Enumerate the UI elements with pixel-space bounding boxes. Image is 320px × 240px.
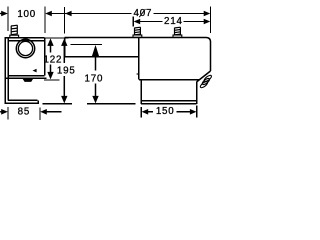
svg-text:100: 100	[17, 9, 36, 20]
dimension 85: right ext line	[39, 108, 41, 121]
dimension 170: top extension line	[71, 44, 103, 46]
right view: housing left edge	[138, 38, 140, 80]
left view: threaded stud	[11, 25, 18, 35]
left view: body bottom seam	[8, 75, 45, 77]
dimension 195: line with arrows	[61, 38, 67, 103]
right view: cable gland ribs	[199, 74, 212, 88]
right view: stud 1	[134, 27, 140, 35]
left view: mounting plate inner face	[7, 38, 9, 101]
baseline extension segment 2	[87, 103, 135, 105]
dimension 100: right ext line	[44, 7, 46, 34]
dimension 150: right segment and arrow	[177, 111, 192, 113]
svg-text:195: 195	[57, 65, 76, 76]
svg-text:122: 122	[44, 54, 63, 65]
left view: body top edge	[5, 37, 45, 39]
dimension 214: right segment and arrow	[184, 21, 206, 23]
dimension 150: left arrow and segment	[142, 109, 149, 115]
left view: drain tab under bottom lip	[23, 79, 34, 82]
dimension 85: left arrow	[0, 111, 2, 113]
left view: gland outer circle	[16, 39, 34, 57]
svg-text:407: 407	[134, 8, 153, 19]
dimension 150: left ext line	[140, 107, 142, 118]
svg-text:170: 170	[85, 74, 104, 85]
right view: base bottom edge	[141, 103, 197, 105]
right view: housing bottom edge	[139, 79, 200, 81]
dimension 407: right shared ext line	[210, 7, 212, 34]
dimension 150: right ext line	[196, 106, 198, 118]
dimension 100: left arrow	[0, 13, 2, 15]
dimension 407: left ext line	[64, 7, 66, 34]
right view: duct bottom edge	[65, 56, 139, 58]
dimension 122/195: top extension line	[46, 37, 69, 39]
right view: base left edge	[140, 80, 142, 104]
right view: base right edge	[196, 82, 198, 104]
right view: base bottom seam	[141, 100, 197, 102]
dimension 100: left ext line	[7, 7, 9, 32]
dimension 170: line with arrows	[92, 45, 99, 104]
right view: duct left edge	[64, 38, 66, 57]
left view: stud base flange	[10, 35, 19, 37]
left view: gland inner circle	[18, 41, 32, 55]
dimension 214: left arrow and segment	[134, 19, 141, 25]
left view: mounting plate outer face	[4, 38, 6, 104]
right view: housing left edge weld tick	[137, 73, 139, 75]
left view: small arrow marker inside body	[33, 69, 37, 73]
dimension 407: right segment and arrow	[154, 13, 206, 15]
dimension 85: left ext line	[7, 107, 9, 120]
svg-text:85: 85	[18, 107, 31, 118]
svg-text:214: 214	[164, 16, 183, 27]
right view: stud 1 base flange	[133, 35, 142, 37]
dimension 214: left ext line	[132, 17, 134, 27]
dimension 85: right arrow with tail	[40, 109, 47, 115]
dimension 122: line with arrows	[47, 38, 53, 79]
right view: bottom-right diagonal cut	[197, 71, 211, 82]
left view: foot inner bottom	[8, 99, 38, 101]
left view: foot outer bottom	[5, 102, 39, 104]
left view: foot end cap	[37, 100, 39, 104]
right view: connecting duct top edge and housing top with rounded corner	[65, 38, 211, 72]
svg-text:150: 150	[156, 106, 175, 117]
left view: bottom lip	[5, 77, 47, 79]
right view: stud 2 base flange	[173, 35, 182, 37]
dimension 407: left arrow on ext	[65, 11, 72, 17]
right view: stud 2	[174, 27, 180, 35]
dimension 100: right arrow with tail to 407 arrow	[45, 11, 52, 17]
dimension 122: bottom extension line	[44, 79, 60, 81]
left view: body right edge	[44, 38, 46, 76]
left view: lid seam	[8, 40, 45, 42]
baseline extension segment 1	[43, 103, 73, 105]
